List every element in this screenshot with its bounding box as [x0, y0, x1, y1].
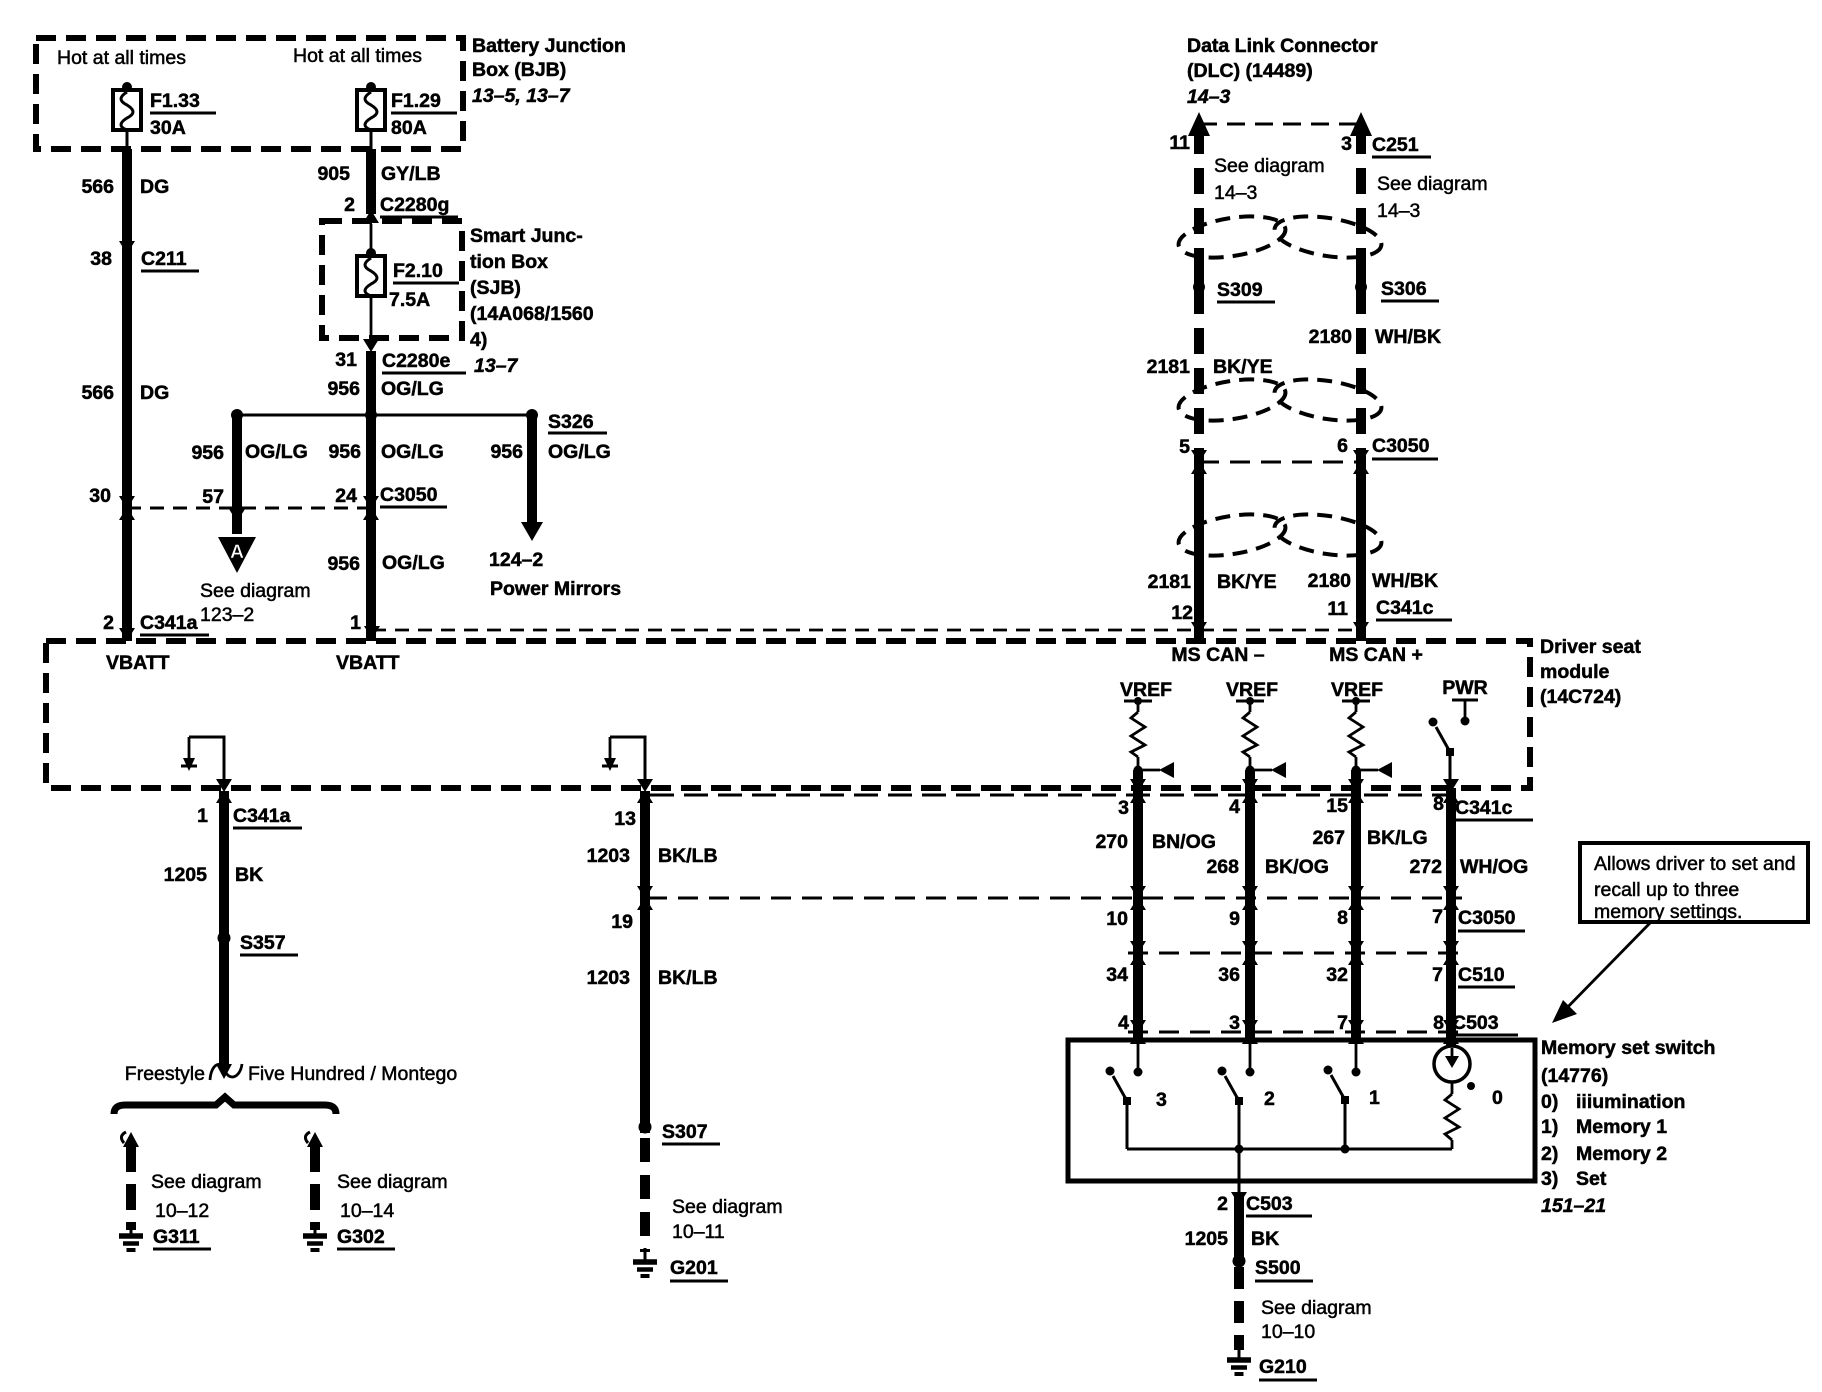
svg-text:recall up to three: recall up to three: [1594, 879, 1739, 901]
svg-text:13–5, 13–7: 13–5, 13–7: [472, 85, 571, 107]
svg-text:36: 36: [1218, 964, 1240, 986]
svg-text:151–21: 151–21: [1541, 1195, 1606, 1217]
svg-text:566: 566: [81, 382, 114, 404]
switch 3 (Set): [1106, 1040, 1168, 1149]
svg-text:2180: 2180: [1308, 570, 1352, 592]
svg-text:11: 11: [1169, 132, 1190, 154]
svg-text:module: module: [1540, 661, 1609, 683]
svg-text:S500: S500: [1255, 1257, 1301, 1279]
connector line C510: [1128, 952, 1462, 955]
splice dot right S326: [526, 409, 538, 421]
VREF resistor 1: [1120, 679, 1174, 778]
Memory set switch enclosure: [1068, 1040, 1535, 1181]
DLC pin 3 arrow up: [1350, 112, 1372, 136]
svg-text:(SJB): (SJB): [470, 277, 521, 299]
wire 905 GY/LB from F1.29 to SJB: [366, 149, 376, 214]
svg-text:S306: S306: [1381, 278, 1427, 300]
svg-text:7: 7: [1432, 964, 1443, 986]
svg-text:3: 3: [1341, 133, 1352, 155]
wire 272 WH/OG (pin 8): [1446, 788, 1456, 1046]
svg-text:iiiumination: iiiumination: [1576, 1091, 1685, 1113]
internal link pin 13 hook: [602, 737, 645, 788]
svg-text:8: 8: [1337, 907, 1348, 929]
svg-text:A: A: [230, 541, 244, 563]
svg-text:7: 7: [1337, 1012, 1348, 1034]
splice S309: [1194, 272, 1204, 302]
VREF resistor 2: [1226, 679, 1286, 778]
svg-text:956: 956: [191, 442, 224, 464]
connector C2280e pin 31 arrow: [363, 339, 379, 352]
svg-text:1: 1: [197, 805, 208, 827]
svg-text:Memory 2: Memory 2: [1576, 1143, 1667, 1165]
Five Hundred branch wire to G302: [305, 1132, 447, 1230]
svg-text:7.5A: 7.5A: [389, 289, 430, 311]
svg-text:BK/LB: BK/LB: [658, 845, 718, 867]
svg-text:Data Link Connector: Data Link Connector: [1187, 35, 1378, 57]
svg-text:Smart Junc-: Smart Junc-: [470, 225, 583, 247]
arrow into module pin 2: [119, 628, 135, 641]
Freestyle branch wire to G311: [121, 1132, 261, 1230]
svg-text:PWR: PWR: [1442, 677, 1488, 699]
svg-text:See diagram: See diagram: [337, 1171, 448, 1193]
svg-text:C2280g: C2280g: [380, 194, 449, 216]
wire 1205 BK to S500: [1234, 1196, 1244, 1261]
svg-text:C2280e: C2280e: [382, 350, 450, 372]
svg-text:C3050: C3050: [1372, 435, 1430, 457]
svg-text:14–3: 14–3: [1377, 200, 1420, 222]
svg-text:Battery Junction: Battery Junction: [472, 35, 626, 57]
svg-text:Box (BJB): Box (BJB): [472, 59, 566, 81]
svg-text:32: 32: [1326, 964, 1348, 986]
svg-text:C211: C211: [141, 248, 187, 270]
svg-text:8: 8: [1433, 793, 1444, 815]
svg-text:14–3: 14–3: [1187, 86, 1231, 108]
svg-text:GY/LB: GY/LB: [381, 163, 441, 185]
svg-text:Freestyle: Freestyle: [125, 1063, 205, 1085]
VREF resistor 3: [1331, 679, 1392, 778]
dashed wire to G201: [640, 1138, 650, 1252]
svg-text:2: 2: [1217, 1193, 1228, 1215]
svg-text:270: 270: [1095, 831, 1128, 853]
fuse F1.29 80A: [357, 82, 457, 149]
svg-text:10: 10: [1106, 908, 1128, 930]
svg-text:19: 19: [611, 911, 633, 933]
svg-text:C3050: C3050: [1458, 907, 1516, 929]
svg-text:C341c: C341c: [1455, 797, 1513, 819]
ground G210: [1238, 1346, 1241, 1358]
illumination lamp 0: [1434, 1046, 1503, 1149]
svg-text:WH/BK: WH/BK: [1375, 326, 1441, 348]
arrow up into SJB: [363, 210, 379, 223]
svg-text:BK/LB: BK/LB: [658, 967, 718, 989]
Battery Junction Box (BJB) dashed enclosure: [36, 38, 463, 149]
switch 1 (Memory 1): [1324, 1040, 1381, 1149]
svg-text:6: 6: [1337, 435, 1348, 457]
DLC pin 11 arrow up: [1188, 112, 1210, 136]
svg-text:10–12: 10–12: [155, 1200, 209, 1222]
wire 270 BN/OG (pin 3): [1133, 770, 1143, 1040]
svg-text:BN/OG: BN/OG: [1152, 831, 1216, 853]
wire 1205 BK from module pin 1: [216, 779, 232, 803]
svg-text:2180: 2180: [1309, 326, 1353, 348]
splice S307: [639, 1121, 652, 1134]
twisted pair symbol 3: [1176, 508, 1385, 562]
svg-text:(14A068/1560: (14A068/1560: [470, 303, 594, 325]
wire 566 DG from F1.33 to pin 2 C341a: [122, 149, 132, 641]
svg-text:956: 956: [327, 378, 360, 400]
svg-text:2181: 2181: [1147, 356, 1191, 378]
big arrow A to diagram 123-2: [218, 537, 256, 573]
svg-text:F1.33: F1.33: [150, 90, 200, 112]
splice S357: [218, 932, 231, 945]
svg-text:12: 12: [1171, 602, 1193, 624]
svg-text:BK/OG: BK/OG: [1265, 856, 1329, 878]
svg-text:0): 0): [1541, 1091, 1558, 1113]
junction dart wire1 x C3050: [119, 496, 135, 520]
svg-text:C503: C503: [1452, 1012, 1499, 1034]
splice dot left: [231, 409, 243, 421]
svg-text:1205: 1205: [164, 864, 208, 886]
svg-text:38: 38: [90, 248, 112, 270]
svg-text:WH/BK: WH/BK: [1372, 570, 1438, 592]
splice line S326 horizontal: [237, 414, 532, 417]
connector line C3050 (right): [647, 897, 1462, 900]
svg-text:1203: 1203: [587, 845, 631, 867]
callout box: [1580, 843, 1808, 922]
svg-text:VBATT: VBATT: [336, 652, 400, 674]
wire 268 BK/OG (pin 4): [1245, 770, 1255, 1040]
wire 267 BK/LG (pin 15): [1351, 770, 1361, 1040]
svg-text:1: 1: [350, 612, 361, 634]
svg-text:Hot at all times: Hot at all times: [293, 45, 422, 67]
svg-text:80A: 80A: [391, 117, 427, 139]
svg-text:Set: Set: [1576, 1168, 1607, 1190]
svg-text:2): 2): [1541, 1143, 1558, 1165]
svg-text:1: 1: [1369, 1087, 1380, 1109]
svg-text:10–10: 10–10: [1261, 1321, 1315, 1343]
twisted pair symbol 1: [1176, 210, 1385, 264]
callout arrow: [1558, 922, 1651, 1017]
splice S306: [1356, 272, 1366, 302]
svg-text:Power Mirrors: Power Mirrors: [490, 578, 621, 600]
switch 2 (Memory 2): [1218, 1040, 1276, 1149]
svg-text:1203: 1203: [587, 967, 631, 989]
svg-text:123–2: 123–2: [200, 604, 254, 626]
svg-text:BK/YE: BK/YE: [1217, 571, 1277, 593]
connector C3050 left dashed line (pins 30/57/24): [127, 507, 371, 510]
svg-text:DG: DG: [140, 176, 169, 198]
svg-text:10–11: 10–11: [672, 1221, 725, 1243]
svg-text:C341a: C341a: [233, 805, 291, 827]
arrow to model split: [216, 1064, 232, 1079]
wire to power mirrors: [527, 415, 537, 523]
switch common bus: [1127, 1148, 1452, 1151]
svg-text:2: 2: [1264, 1088, 1275, 1110]
internal link pin 1 hook: [181, 737, 224, 788]
svg-text:(14776): (14776): [1541, 1065, 1608, 1087]
wire 956 OG/LG branch 2: [232, 415, 242, 534]
svg-text:30A: 30A: [150, 117, 186, 139]
svg-text:C341c: C341c: [1376, 597, 1434, 619]
svg-text:F1.29: F1.29: [391, 90, 441, 112]
svg-text:DG: DG: [140, 382, 169, 404]
dashed wire to G210: [1234, 1267, 1244, 1350]
splice dot center: [365, 409, 377, 421]
Smart Junction Box dashed enclosure: [322, 221, 462, 338]
svg-text:C3050: C3050: [380, 484, 438, 506]
wire 1203 BK/LB: [637, 779, 653, 803]
Driver seat module (14C724) dashed enclosure: [46, 641, 1530, 788]
svg-text:memory settings.: memory settings.: [1594, 901, 1742, 923]
svg-text:S307: S307: [662, 1121, 708, 1143]
ground G302: [314, 1224, 317, 1234]
svg-text:11: 11: [1327, 598, 1348, 620]
fuse F1.33 30A: [113, 82, 216, 149]
svg-text:956: 956: [328, 441, 361, 463]
splice S500: [1233, 1255, 1246, 1268]
svg-text:See diagram: See diagram: [200, 580, 311, 602]
svg-text:905: 905: [317, 163, 350, 185]
svg-text:See diagram: See diagram: [1261, 1297, 1372, 1319]
svg-text:272: 272: [1409, 856, 1442, 878]
svg-text:3: 3: [1156, 1089, 1167, 1111]
wire MS CAN high (right, dashed): [1356, 128, 1366, 466]
svg-text:tion Box: tion Box: [470, 251, 548, 273]
svg-text:OG/LG: OG/LG: [381, 378, 444, 400]
brace: [114, 1097, 336, 1114]
svg-text:9: 9: [1229, 908, 1240, 930]
svg-text:13–7: 13–7: [474, 355, 519, 377]
wire 956 OG/LG main: [366, 351, 376, 641]
svg-text:C341a: C341a: [140, 612, 198, 634]
svg-text:0: 0: [1492, 1087, 1503, 1109]
svg-text:1205: 1205: [1185, 1228, 1229, 1250]
svg-text:G302: G302: [337, 1226, 385, 1248]
svg-text:S309: S309: [1217, 279, 1263, 301]
svg-text:F2.10: F2.10: [393, 260, 443, 282]
svg-text:14–3: 14–3: [1214, 182, 1257, 204]
svg-text:10–14: 10–14: [340, 1200, 394, 1222]
svg-text:See diagram: See diagram: [1214, 155, 1325, 177]
connector C211 pin 38 arrow: [119, 241, 135, 254]
svg-text:C503: C503: [1246, 1193, 1293, 1215]
svg-text:2181: 2181: [1148, 571, 1192, 593]
svg-text:956: 956: [327, 553, 360, 575]
svg-text:8: 8: [1433, 1012, 1444, 1034]
svg-text:Hot at all times: Hot at all times: [57, 47, 186, 69]
PWR internal switch: [1429, 677, 1488, 788]
connector line C503: [1128, 1031, 1462, 1034]
svg-text:OG/LG: OG/LG: [381, 441, 444, 463]
svg-text:(14C724): (14C724): [1540, 686, 1621, 708]
svg-text:2: 2: [344, 194, 355, 216]
wire MS CAN low (left, dashed): [1194, 128, 1204, 466]
svg-text:3: 3: [1229, 1012, 1240, 1034]
svg-text:OG/LG: OG/LG: [382, 552, 445, 574]
svg-text:C510: C510: [1458, 964, 1505, 986]
svg-text:267: 267: [1312, 827, 1345, 849]
svg-text:13: 13: [614, 808, 636, 830]
connector line bottom thin pair: [650, 794, 1460, 797]
svg-text:See diagram: See diagram: [151, 1171, 262, 1193]
svg-text:BK: BK: [1251, 1228, 1279, 1250]
svg-text:See diagram: See diagram: [1377, 173, 1488, 195]
svg-text:G210: G210: [1259, 1356, 1307, 1378]
svg-text:5: 5: [1179, 436, 1190, 458]
svg-text:VBATT: VBATT: [106, 652, 170, 674]
svg-text:3): 3): [1541, 1168, 1558, 1190]
svg-text:MS CAN +: MS CAN +: [1329, 644, 1423, 666]
svg-text:WH/OG: WH/OG: [1460, 856, 1528, 878]
svg-text:31: 31: [335, 349, 357, 371]
svg-text:G311: G311: [153, 1226, 200, 1248]
svg-text:Memory set switch: Memory set switch: [1541, 1037, 1715, 1059]
svg-text:34: 34: [1106, 964, 1128, 986]
svg-text:G201: G201: [670, 1257, 718, 1279]
svg-text:566: 566: [81, 176, 114, 198]
svg-text:4): 4): [470, 329, 487, 351]
svg-text:MS CAN –: MS CAN –: [1171, 644, 1264, 666]
svg-text:Driver seat: Driver seat: [1540, 636, 1641, 658]
svg-text:15: 15: [1326, 795, 1348, 817]
svg-text:4: 4: [1229, 796, 1240, 818]
svg-text:1): 1): [1541, 1116, 1558, 1138]
svg-text:7: 7: [1432, 906, 1443, 928]
svg-text:C251: C251: [1372, 134, 1419, 156]
svg-text:57: 57: [202, 486, 224, 508]
svg-text:24: 24: [335, 485, 357, 507]
svg-text:(DLC) (14489): (DLC) (14489): [1187, 60, 1313, 82]
svg-text:BK: BK: [235, 864, 263, 886]
svg-text:Five Hundred / Montego: Five Hundred / Montego: [248, 1063, 457, 1085]
svg-text:2: 2: [103, 612, 114, 634]
svg-text:124–2: 124–2: [489, 549, 543, 571]
svg-text:Allows driver to set and: Allows driver to set and: [1594, 853, 1796, 875]
connector line C341 top thin: [372, 629, 1361, 632]
svg-text:3: 3: [1118, 797, 1129, 819]
svg-text:See diagram: See diagram: [672, 1196, 783, 1218]
svg-text:VREF: VREF: [1120, 679, 1172, 701]
svg-text:OG/LG: OG/LG: [245, 441, 308, 463]
svg-text:S357: S357: [240, 932, 286, 954]
svg-text:268: 268: [1206, 856, 1239, 878]
svg-text:S326: S326: [548, 411, 594, 433]
svg-text:956: 956: [490, 441, 523, 463]
svg-text:OG/LG: OG/LG: [548, 441, 611, 463]
twisted pair symbol 2: [1176, 373, 1385, 427]
svg-text:4: 4: [1118, 1012, 1129, 1034]
svg-text:30: 30: [89, 485, 111, 507]
svg-text:Memory 1: Memory 1: [1576, 1116, 1667, 1138]
fuse F2.10 7.5A: [357, 224, 459, 338]
svg-text:BK/LG: BK/LG: [1367, 827, 1428, 849]
ground G201: [644, 1248, 647, 1260]
svg-text:BK/YE: BK/YE: [1213, 356, 1273, 378]
ground G311: [130, 1224, 133, 1234]
drop to pin 2 C503: [1238, 1149, 1241, 1192]
DLC top dashed jumper: [1199, 123, 1361, 126]
